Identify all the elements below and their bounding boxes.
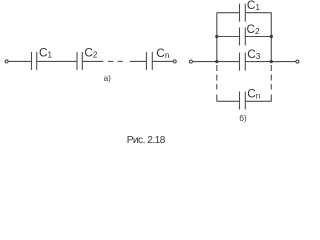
top row wire right of C1: [246, 12, 272, 14]
svg-text:б): б): [239, 114, 247, 123]
capacitor C2 (parallel): [240, 28, 246, 46]
main row wire right of C3: [246, 61, 272, 63]
wire C1 to C2: [37, 60, 77, 62]
capacitor Cn (parallel): [240, 92, 246, 110]
main row wire left of C3: [217, 61, 240, 63]
terminal T2 (right output of series circuit a): [173, 60, 176, 63]
capacitor Cn (series): [146, 52, 152, 70]
wire T1 to C1: [9, 60, 31, 62]
top row wire left of C1: [217, 12, 240, 14]
junction node left rail / C2 row: [215, 35, 218, 38]
wire Cn to T2: [153, 60, 173, 62]
terminal T3 (left input of parallel circuit b): [189, 60, 192, 63]
wire right rail to T4: [271, 61, 295, 63]
junction node right rail / C2 row: [270, 35, 273, 38]
terminal T1 (left input of series circuit a): [5, 60, 8, 63]
wire C2 rightward: [83, 60, 104, 62]
row wire right of C2: [246, 36, 272, 38]
terminal T4 (right output of parallel circuit b): [296, 60, 299, 63]
capacitor C2 (series): [77, 52, 82, 70]
dashed wire (omitted capacitors): [108, 60, 123, 62]
left rail dashed lower part: [216, 65, 218, 101]
wire to Cn: [130, 60, 147, 62]
capacitor C1 (parallel): [240, 4, 246, 22]
capacitor C1 (series): [32, 52, 37, 70]
capacitor C3 (parallel): [240, 53, 246, 71]
left rail (solid upper part): [216, 13, 218, 62]
junction node left rail / main row: [215, 60, 218, 63]
svg-text:а): а): [104, 74, 112, 83]
row wire left of C2: [217, 36, 240, 38]
bottom row wire right of Cn: [246, 100, 272, 102]
junction node right rail / main row: [270, 60, 273, 63]
wire T3 to left rail: [193, 61, 217, 63]
svg-text:Рис. 2.18: Рис. 2.18: [127, 135, 166, 146]
right rail (solid upper part): [270, 13, 272, 62]
right rail dashed lower part: [270, 65, 272, 101]
bottom row wire left of Cn: [217, 100, 240, 102]
